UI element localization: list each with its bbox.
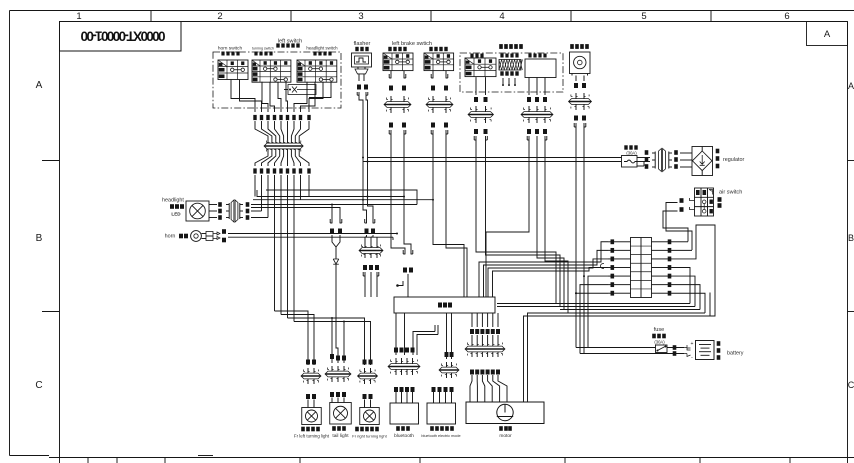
- svg-text:flasher: flasher: [354, 41, 371, 47]
- meter block: [528, 54, 531, 58]
- brake switch 1 pigtails: [390, 71, 392, 74]
- svg-text:LED: LED: [171, 212, 181, 217]
- bluetooth electric mode module: [445, 352, 449, 357]
- battery feed lines: [576, 347, 656, 349]
- svg-text:B: B: [848, 233, 854, 243]
- brake switch 2 wires to controller: [433, 134, 464, 297]
- svg-text:battery: battery: [727, 351, 744, 357]
- left switch dashed enclosure: [213, 52, 341, 108]
- flasher column connector above controller: [363, 200, 367, 219]
- sheet frame outer border: [10, 10, 854, 12]
- right switch 2-pin column: [474, 97, 478, 102]
- headlight connector: [209, 204, 217, 206]
- svg-text:0000XT-00001-00: 0000XT-00001-00: [81, 29, 166, 44]
- regulator: [692, 147, 713, 176]
- battery connector: [684, 345, 691, 357]
- svg-text:regulator: regulator: [723, 157, 744, 163]
- svg-text:horn switch: horn switch: [218, 46, 243, 52]
- svg-text:motor: motor: [499, 433, 512, 439]
- svg-text:4: 4: [499, 11, 504, 22]
- ignition lock: [570, 44, 574, 49]
- ignition lock wires: [575, 76, 577, 82]
- brake switch 1 connector: [390, 96, 392, 102]
- svg-text:headlight: headlight: [162, 198, 184, 204]
- Fr right turning light caption: [355, 427, 359, 432]
- right switch dashed enclosure: [460, 53, 563, 92]
- motor phase wires from controller: [471, 313, 473, 327]
- right switch internal stubs: [502, 78, 504, 84]
- connector left wires lower to battery lines: [588, 276, 608, 347]
- svg-text:A: A: [848, 81, 854, 91]
- svg-text:(30A): (30A): [654, 340, 665, 345]
- motor connector: [471, 341, 473, 346]
- harness bus lines below switch fan: [266, 190, 417, 205]
- tail light pigtail: [331, 366, 333, 371]
- horn feed wires: [228, 233, 397, 235]
- svg-text:1: 1: [76, 11, 81, 22]
- svg-text:B: B: [36, 233, 43, 244]
- battery: [696, 341, 715, 360]
- svg-text:A: A: [824, 29, 831, 40]
- svg-text:2: 2: [217, 11, 222, 22]
- brake switch 2 pigtails: [432, 71, 434, 74]
- right switch 2pin wires down: [476, 140, 556, 304]
- Fr left turning light caption: [301, 427, 305, 432]
- wires from switch tables to harness labels: [230, 80, 232, 99]
- connector right wires lower going down: [672, 268, 690, 304]
- handlebar connector 9-pin: [255, 121, 268, 139]
- top zone ticks: [150, 11, 152, 22]
- right switch table: [470, 54, 473, 58]
- start switch block (hatched): [500, 54, 503, 58]
- svg-text:C: C: [35, 380, 42, 391]
- meter 3-pin column: [528, 78, 530, 96]
- svg-text:(30A): (30A): [626, 151, 637, 156]
- air switch: [695, 188, 714, 216]
- inline hook on harness wire: [601, 264, 605, 269]
- main harness connector block: [631, 238, 652, 298]
- harness wire colour labels upper: [253, 115, 256, 120]
- title block with drawing number (rotated): [60, 22, 182, 52]
- svg-text:bluetooth electric mode: bluetooth electric mode: [421, 434, 460, 438]
- lamp drop wires: [331, 318, 333, 363]
- diode column (brake light feed): [331, 219, 333, 223]
- tail light body: [330, 403, 352, 425]
- jumper box inside left switch enclosure: [288, 85, 316, 95]
- bluetooth module: [394, 348, 398, 353]
- svg-text:Fr right turning light: Fr right turning light: [352, 434, 387, 439]
- Fr left turning light pigtail: [306, 360, 310, 365]
- bus sources from fan right wires: [300, 183, 302, 200]
- Fr right turning light pigtail: [363, 360, 367, 365]
- svg-text:Fr left turning light: Fr left turning light: [294, 434, 330, 439]
- harness wire colour labels lower: [253, 168, 256, 173]
- connector right pin stubs and labels: [652, 241, 660, 243]
- headlight wires to harness: [246, 202, 250, 207]
- svg-text:left brake swtich: left brake swtich: [392, 41, 432, 47]
- air switch wires: [690, 198, 695, 210]
- svg-text:C: C: [848, 380, 854, 390]
- flasher plug: [357, 67, 359, 69]
- inner drawing frame: [60, 21, 848, 23]
- svg-text:5: 5: [641, 11, 646, 22]
- svg-text:air switch: air switch: [719, 190, 742, 196]
- svg-text:3: 3: [358, 11, 363, 22]
- svg-text:bluetooth: bluetooth: [394, 433, 414, 439]
- regulator connector: [652, 152, 655, 154]
- horn switch table: [218, 60, 248, 80]
- revision box A top right: [807, 22, 848, 46]
- brake switch 1 wires to aux connector: [391, 134, 405, 250]
- motor body: [466, 402, 544, 424]
- svg-text:turning switch: turning switch: [252, 47, 274, 51]
- motor wire fan to motor: [470, 375, 472, 402]
- horn connector: [202, 233, 207, 235]
- svg-text:+: +: [691, 341, 694, 347]
- motor feed pair: [528, 313, 706, 402]
- hook with node dot: [396, 284, 399, 287]
- meter column wires down: [486, 140, 529, 297]
- svg-text:fuse: fuse: [654, 327, 665, 333]
- fuse 30A for regulator: [624, 145, 627, 149]
- left brake switch table 1: [383, 53, 413, 71]
- lamp feed corners: [275, 311, 309, 365]
- regulator feed lines: [368, 157, 622, 159]
- turning switch table: [252, 60, 291, 82]
- bluetooth wires from controller: [395, 313, 397, 355]
- connector right wires upper going up: [672, 241, 688, 243]
- controller box: [394, 297, 495, 313]
- left brake switch table 2: [424, 53, 454, 71]
- svg-text:tail light: tail light: [332, 433, 349, 439]
- harness bundle down-left to lamps: [274, 183, 276, 311]
- connector left wires to controller top: [479, 242, 608, 297]
- Fr left turning light body: [302, 408, 322, 425]
- left zone ticks: [42, 160, 60, 162]
- headlight switch table: [297, 60, 337, 82]
- brake switch 2 connector: [432, 96, 434, 102]
- tail light caption: [332, 426, 336, 431]
- connector left pin stubs and labels: [621, 241, 631, 243]
- flasher wires down: [358, 92, 360, 95]
- bottom harness bus: [497, 303, 690, 305]
- ignition feed down to battery lines: [575, 126, 577, 347]
- svg-text:headlight switch: headlight switch: [306, 46, 338, 51]
- bottom title strip cell ticks: [87, 458, 89, 463]
- Fr right turning light body: [360, 408, 380, 425]
- svg-text:A: A: [36, 80, 43, 91]
- aux connector above controller: [404, 250, 406, 254]
- tail light labels upper extra: [330, 354, 334, 359]
- svg-text:horn: horn: [165, 234, 176, 240]
- svg-text:6: 6: [784, 11, 789, 22]
